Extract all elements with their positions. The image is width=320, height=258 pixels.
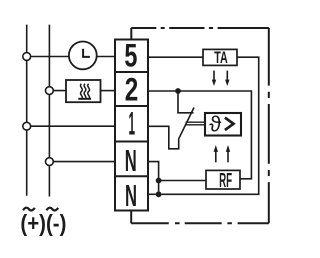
terminal block outline <box>115 40 148 211</box>
wire terminal 2 to switch and RF drop <box>148 91 251 179</box>
TA box <box>203 49 237 65</box>
node A (open circle on L1 upper) <box>23 53 31 61</box>
tilde over plus <box>23 208 35 211</box>
arrows down from TA <box>213 71 215 80</box>
device boundary right dash-dot <box>268 28 270 223</box>
wire node L1 to clock <box>27 56 69 58</box>
wire node L2 to heater <box>49 90 66 92</box>
junction dot on terminal 2 wire <box>175 88 181 94</box>
tilde over minus <box>46 208 58 211</box>
svg-text:TA: TA <box>214 49 228 67</box>
mechanical link double line <box>186 122 206 125</box>
switch fixed contact <box>178 91 194 113</box>
clock / timer symbol <box>69 42 97 70</box>
wire terminal N1 drop <box>148 162 159 195</box>
terminal divider 1/N <box>115 141 148 143</box>
terminal divider 5/2 <box>115 71 148 73</box>
theta greater-than chevron <box>225 118 234 130</box>
wire TA to N return (right drop) <box>162 57 259 194</box>
wire terminal 1 to switch pivot <box>148 126 179 149</box>
arrows up to thermostat from RF <box>215 152 217 163</box>
RF box <box>206 170 240 189</box>
wire L1 (left vertical supply wire) <box>26 25 28 196</box>
wire terminal 5 to TA <box>148 56 203 58</box>
wire L2 (second vertical supply wire) <box>48 25 50 197</box>
terminal divider N/N <box>115 175 148 177</box>
node B (open circle on L1 lower) <box>23 122 31 130</box>
svg-text:N: N <box>125 178 137 213</box>
device boundary bottom dash-dot <box>131 222 269 224</box>
device boundary riser bottom <box>130 211 132 224</box>
svg-text:ϑ: ϑ <box>209 111 221 136</box>
wire terminal N2 out <box>148 193 159 195</box>
svg-text:5: 5 <box>124 38 137 74</box>
svg-text:2: 2 <box>125 72 139 108</box>
device boundary top dash-dot <box>131 27 268 29</box>
wire node L2 lower to terminal N1 <box>49 161 115 163</box>
label (+) with tilde <box>20 210 66 236</box>
switch blade <box>179 108 194 139</box>
wire node L1 lower to terminal 1 <box>27 125 115 127</box>
heater / heating element box <box>66 80 101 102</box>
wire RF tap to RF box <box>159 180 206 182</box>
wire clock to terminal 5 <box>97 56 115 58</box>
node D (open circle on L2 lower) <box>46 158 54 166</box>
svg-text:N: N <box>125 143 137 178</box>
node C (open circle on L2 upper) <box>46 87 54 95</box>
junction dot RF tap <box>156 178 162 184</box>
wire heater to terminal 2 <box>101 90 116 92</box>
svg-text:1: 1 <box>128 106 135 142</box>
junction dot N join <box>156 191 162 197</box>
terminal label 5 <box>124 38 232 213</box>
thermostat box U1 (theta >) <box>205 113 241 136</box>
svg-text:RF: RF <box>219 170 232 192</box>
terminal divider 2/1 <box>115 105 148 107</box>
svg-text:(+)(-): (+)(-) <box>20 210 66 236</box>
device boundary riser top <box>130 28 132 40</box>
